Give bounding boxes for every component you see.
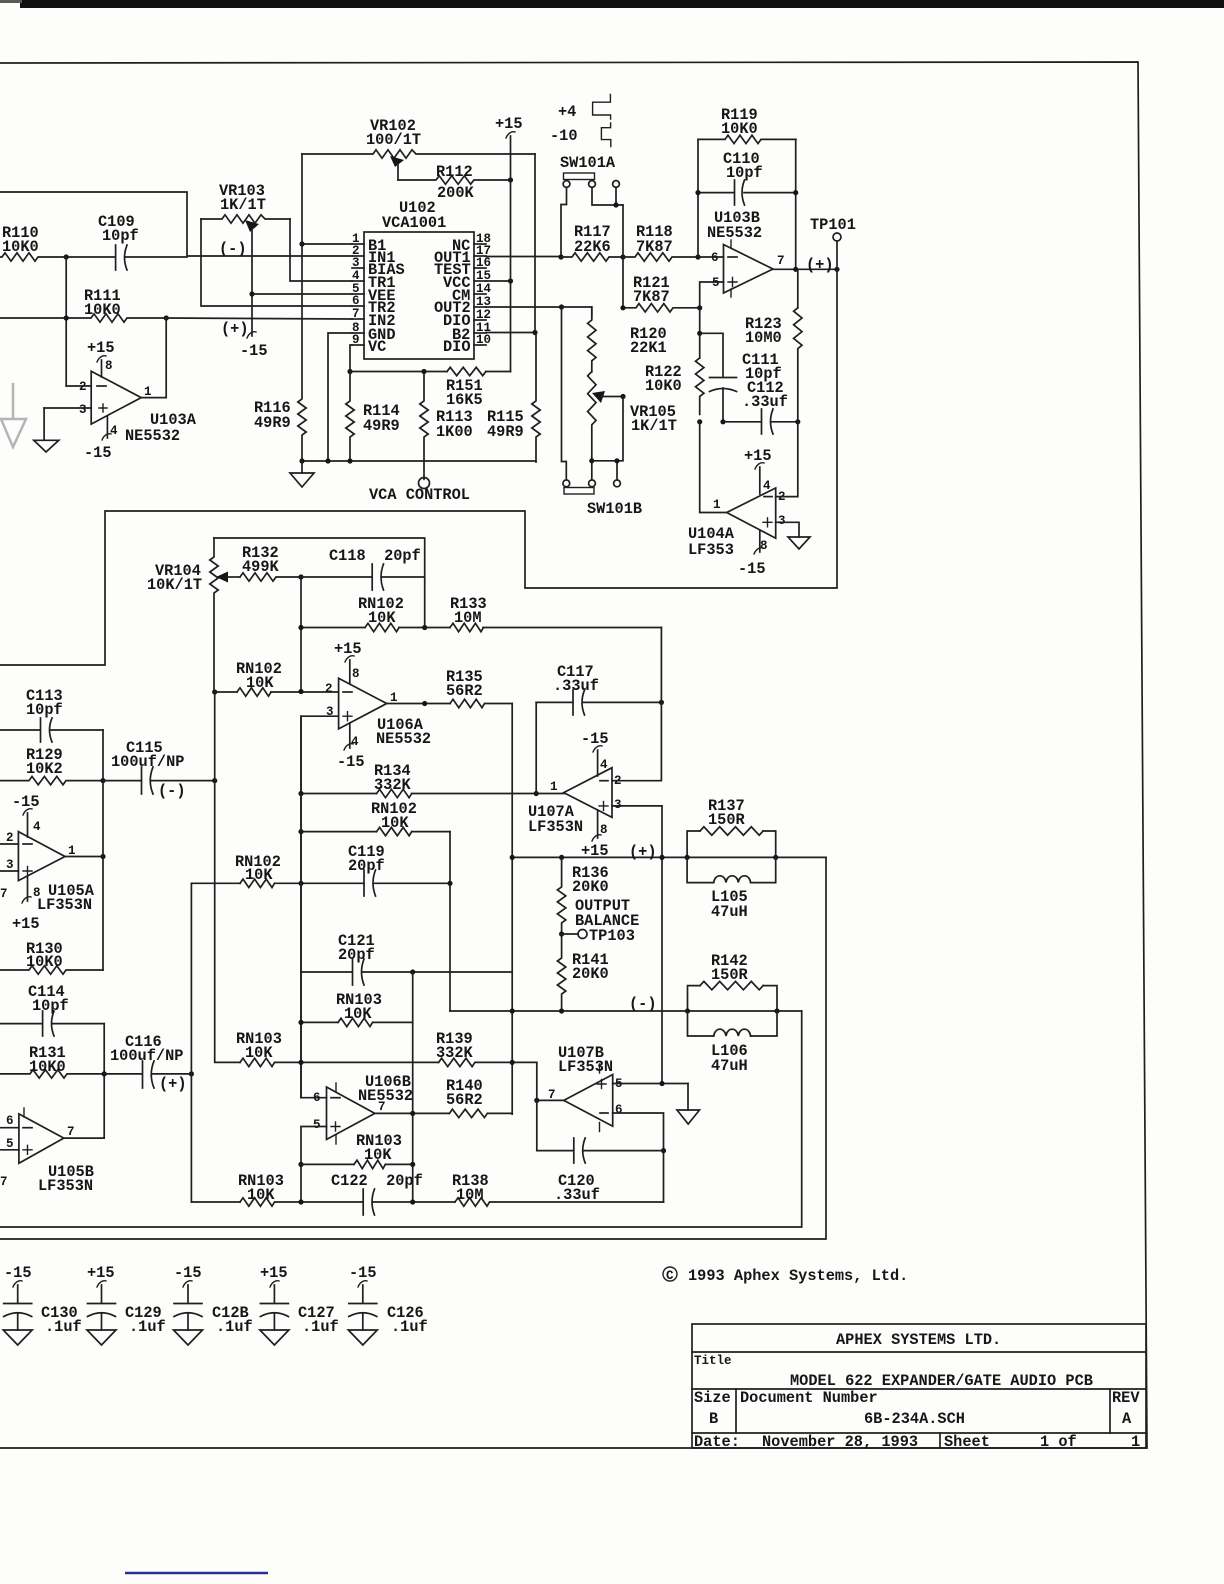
- level mark -10: [550, 123, 611, 147]
- svg-text:10pf: 10pf: [26, 701, 63, 719]
- wire VR104 top loop: [214, 538, 425, 628]
- wire C113 down to R129 row: [102, 730, 104, 781]
- wire GND pin8 down: [328, 333, 352, 461]
- potentiometer VR103: [201, 182, 290, 294]
- svg-text:7: 7: [0, 887, 8, 901]
- resistor R131: [0, 1044, 103, 1078]
- wire detector output routing: [0, 269, 837, 665]
- op-amp U104A: [688, 479, 786, 559]
- svg-text:(+): (+): [806, 256, 834, 274]
- wire VR103 left leg to TR2 row: [201, 219, 352, 306]
- resistor R151: [446, 367, 486, 409]
- svg-text:+15: +15: [744, 447, 772, 465]
- svg-text:10K: 10K: [246, 674, 274, 692]
- potentiometer VR104: [147, 538, 228, 692]
- inductor L105: [687, 857, 776, 921]
- svg-text:4: 4: [763, 479, 771, 493]
- power -15 U104A: [738, 530, 766, 578]
- svg-text:(-): (-): [629, 995, 657, 1013]
- wire B2 row to R115: [486, 332, 536, 334]
- svg-text:NE5532: NE5532: [125, 427, 180, 445]
- svg-text:+15: +15: [260, 1264, 288, 1282]
- wire OUT2 row: [486, 306, 562, 308]
- svg-text:.1uf: .1uf: [391, 1318, 428, 1336]
- svg-text:20K0: 20K0: [572, 878, 609, 896]
- svg-text:9: 9: [352, 333, 360, 347]
- wire U105B output: [64, 1074, 104, 1138]
- resistor R130: [0, 940, 103, 974]
- resistor R137: [687, 797, 776, 857]
- svg-text:VCA1001: VCA1001: [382, 214, 446, 232]
- svg-text:3: 3: [6, 858, 14, 872]
- svg-text:56R2: 56R2: [446, 1091, 483, 1109]
- capacitor C110: [698, 150, 796, 205]
- svg-text:1K/1T: 1K/1T: [220, 196, 266, 214]
- wire U106B output: [375, 1112, 450, 1114]
- svg-text:APHEX SYSTEMS LTD.: APHEX SYSTEMS LTD.: [836, 1331, 1001, 1349]
- IC U102 VCA1001 box: [364, 199, 474, 359]
- svg-text:NE5532: NE5532: [376, 730, 431, 748]
- wire U106A plus input: [301, 716, 339, 1097]
- node dots R111 row: [64, 315, 69, 320]
- svg-text:TP103: TP103: [589, 927, 635, 945]
- resistor R140: [446, 1077, 512, 1118]
- wire OUT1 row: [486, 256, 561, 258]
- svg-text:3: 3: [778, 514, 786, 528]
- svg-text:+15: +15: [87, 1264, 115, 1282]
- op-amp U106B: [313, 1073, 413, 1144]
- capacitor C126: [348, 1264, 427, 1345]
- wire VR103 right leg to TR1 row: [290, 219, 352, 281]
- resistor R139: [436, 1030, 537, 1067]
- copyright note: [663, 1267, 908, 1285]
- svg-text:4: 4: [110, 424, 118, 438]
- wire minus feedback right leg: [612, 628, 661, 781]
- svg-text:SW101A: SW101A: [560, 154, 616, 172]
- resistor R111 on IN2 row: [0, 287, 166, 322]
- wire C114 down to R131 row: [103, 1024, 105, 1074]
- svg-text:NE5532: NE5532: [707, 224, 762, 242]
- svg-text:.33uf: .33uf: [742, 393, 788, 411]
- svg-text:-15: -15: [581, 730, 609, 748]
- terminal VCA CONTROL: [369, 478, 470, 505]
- svg-text:150R: 150R: [708, 811, 746, 829]
- U102 left pin stubs: [352, 244, 364, 345]
- op-amp U105B: [0, 1108, 94, 1195]
- svg-text:1: 1: [1131, 1433, 1140, 1451]
- svg-text:4: 4: [33, 820, 41, 834]
- power -15 U106A: [337, 723, 365, 771]
- RN103 resnet fb: [301, 1132, 413, 1169]
- svg-text:20K0: 20K0: [572, 965, 609, 983]
- capacitor C109: [66, 213, 187, 270]
- wire RN102c right leg: [449, 832, 451, 1011]
- wire IN2 row to U102 pin7: [166, 318, 352, 319]
- resistor R120: [588, 307, 667, 372]
- svg-text:47uH: 47uH: [711, 903, 748, 921]
- svg-text:REV: REV: [1112, 1389, 1140, 1407]
- svg-text:(+): (+): [629, 843, 657, 861]
- svg-text:49R9: 49R9: [254, 414, 291, 432]
- svg-text:LF353N: LF353N: [37, 896, 92, 914]
- inductor L106: [688, 1011, 778, 1075]
- wire U104A minus to R123 node: [776, 422, 798, 497]
- svg-text:November 28, 1993: November 28, 1993: [762, 1433, 918, 1451]
- svg-text:2: 2: [79, 380, 87, 394]
- svg-text:5: 5: [313, 1118, 321, 1132]
- svg-text:3: 3: [614, 798, 622, 812]
- svg-text:10pf: 10pf: [102, 227, 139, 245]
- svg-text:(+): (+): [221, 320, 249, 338]
- level mark +4: [558, 94, 611, 121]
- scanner black bar top: [0, 0, 1224, 8]
- svg-text:Date:: Date:: [694, 1433, 740, 1451]
- svg-text:-15: -15: [349, 1264, 377, 1282]
- resistor R112: [398, 163, 510, 202]
- svg-text:10M: 10M: [456, 1186, 484, 1204]
- resistor R135: [446, 668, 512, 708]
- svg-text:6: 6: [313, 1091, 321, 1105]
- resistor R132: [227, 544, 301, 581]
- wire OUT2 to R120: [562, 307, 592, 316]
- svg-text:56R2: 56R2: [446, 682, 483, 700]
- capacitor C120: [537, 1100, 664, 1204]
- switch SW101A: [560, 154, 623, 257]
- svg-text:22K6: 22K6: [574, 238, 611, 256]
- svg-text:10K0: 10K0: [645, 377, 682, 395]
- svg-text:3: 3: [352, 256, 360, 270]
- svg-text:6: 6: [711, 251, 719, 265]
- svg-text:5: 5: [6, 1137, 14, 1151]
- feedback right leg: [795, 139, 797, 269]
- wire (+) output to right edge loop: [0, 857, 826, 1239]
- svg-text:47uH: 47uH: [711, 1057, 748, 1075]
- svg-text:B: B: [709, 1410, 718, 1428]
- svg-text:Document Number: Document Number: [740, 1389, 878, 1407]
- title block size/doc/rev: [694, 1389, 1140, 1428]
- svg-text:49R9: 49R9: [487, 423, 524, 441]
- resistor R115: [487, 333, 540, 463]
- op-amp U106A: [325, 667, 431, 749]
- capacitor C121: [301, 932, 512, 985]
- svg-text:6: 6: [352, 294, 360, 308]
- svg-text:20pf: 20pf: [338, 946, 375, 964]
- svg-text:2: 2: [6, 831, 14, 845]
- svg-text:LF353: LF353: [688, 541, 734, 559]
- wire B1 row: [302, 243, 352, 245]
- svg-text:1 of: 1 of: [1040, 1433, 1077, 1451]
- svg-text:4: 4: [352, 269, 360, 283]
- svg-text:.1uf: .1uf: [129, 1318, 166, 1336]
- svg-text:A: A: [1122, 1410, 1132, 1428]
- svg-text:499K: 499K: [242, 558, 280, 576]
- svg-text:1K/1T: 1K/1T: [631, 417, 677, 435]
- svg-text:49R9: 49R9: [363, 417, 400, 435]
- wire branch down to R111 row: [65, 257, 67, 386]
- svg-text:16: 16: [476, 256, 491, 270]
- wire (+) audio node vertical: [190, 883, 192, 1202]
- resistor R113: [420, 372, 473, 480]
- svg-text:+15: +15: [334, 640, 362, 658]
- svg-text:7: 7: [0, 1175, 8, 1189]
- svg-text:10K: 10K: [247, 1186, 275, 1204]
- capacitor C114: [0, 983, 104, 1036]
- svg-text:1: 1: [713, 498, 721, 512]
- svg-text:+15: +15: [495, 115, 523, 133]
- svg-text:7K87: 7K87: [633, 288, 670, 306]
- svg-text:10K0: 10K0: [84, 301, 121, 319]
- RN102 resnet d: [191, 853, 301, 888]
- svg-text:-15: -15: [738, 560, 766, 578]
- svg-text:4: 4: [600, 758, 608, 772]
- capacitor C111: [700, 333, 782, 422]
- svg-text:10pf: 10pf: [726, 164, 763, 182]
- svg-text:+15: +15: [87, 339, 115, 357]
- capacitor C115: [103, 739, 215, 800]
- svg-text:2: 2: [325, 682, 333, 696]
- U102 left pin names: [368, 237, 405, 356]
- capacitor C122: [331, 1172, 455, 1215]
- wire VR104 net down to RN103 row: [215, 692, 240, 1062]
- power +15 U107A: [581, 810, 609, 860]
- svg-text:-15: -15: [4, 1264, 32, 1282]
- resistor R133: [425, 595, 662, 632]
- svg-text:7: 7: [777, 254, 785, 268]
- wire U107B minus loop: [613, 1113, 664, 1202]
- resistor R142: [688, 952, 778, 1011]
- svg-text:200K: 200K: [437, 184, 475, 202]
- power +15 U103A: [87, 339, 115, 377]
- wire U107B output node: [537, 1099, 564, 1101]
- svg-text:332K: 332K: [374, 776, 412, 794]
- power +15 U104A: [744, 447, 772, 494]
- wire plus net vertical upper: [300, 716, 302, 1097]
- svg-text:22K1: 22K1: [630, 339, 667, 357]
- ground U103A pin3: [34, 408, 59, 452]
- wire R135 node vertical: [511, 704, 513, 1115]
- (-) audio row: [450, 1010, 802, 1012]
- RN103 resnet b: [236, 1030, 439, 1067]
- svg-text:MODEL 622 EXPANDER/GATE AUDIO: MODEL 622 EXPANDER/GATE AUDIO PCB: [790, 1372, 1093, 1390]
- svg-text:.1uf: .1uf: [45, 1318, 82, 1336]
- wire U103B output: [773, 268, 837, 270]
- svg-text:LF353N: LF353N: [558, 1058, 613, 1076]
- resistor R116: [254, 244, 306, 461]
- gray ground artifact left edge: [1, 383, 26, 447]
- svg-text:R112: R112: [436, 163, 473, 181]
- svg-text:10M0: 10M0: [745, 329, 782, 347]
- power -15 U103A: [84, 416, 112, 462]
- svg-text:(-): (-): [158, 782, 186, 800]
- title block date row: [694, 1433, 1140, 1451]
- svg-text:-15: -15: [337, 753, 365, 771]
- wire VC node row: [350, 371, 511, 373]
- wire OUT2 branch down to SW101B: [562, 307, 567, 480]
- wire VEE row: [252, 293, 352, 295]
- wire (-) output to right edge loop: [0, 1011, 802, 1227]
- U102 right pin numbers: [476, 232, 492, 347]
- svg-text:6B-234A.SCH: 6B-234A.SCH: [864, 1410, 965, 1428]
- svg-text:C122 20pf: C122 20pf: [331, 1172, 423, 1190]
- wire R118 to U103B-: [698, 256, 724, 258]
- svg-text:C118 20pf: C118 20pf: [329, 547, 421, 565]
- wire U107B plus row to ground: [613, 1083, 688, 1085]
- wire U103B+ input: [700, 282, 724, 308]
- svg-text:(+): (+): [159, 1075, 187, 1093]
- svg-text:C: C: [666, 1269, 674, 1283]
- wire SW101B top row: [592, 397, 623, 480]
- potentiometer VR105: [588, 372, 677, 461]
- svg-text:8: 8: [105, 359, 113, 373]
- resistor R122: [645, 308, 704, 415]
- svg-text:6: 6: [615, 1103, 623, 1117]
- svg-text:10M: 10M: [454, 609, 482, 627]
- op-amp U107B: [548, 1044, 623, 1132]
- ground symbol: [290, 461, 314, 487]
- wire VR102 right leg down to B2 row: [534, 154, 536, 333]
- resistor R118: [623, 223, 698, 261]
- svg-text:Size: Size: [694, 1389, 731, 1407]
- resistor R138: [452, 1172, 664, 1206]
- svg-text:TP101: TP101: [810, 216, 856, 234]
- svg-text:2: 2: [614, 774, 622, 788]
- svg-text:+15: +15: [12, 915, 40, 933]
- resistor R141: [557, 934, 608, 1009]
- power -15 VR103 wiper: [240, 294, 268, 360]
- svg-text:3: 3: [79, 403, 87, 417]
- potentiometer VR102: [302, 117, 535, 180]
- op-amp U107A: [528, 758, 622, 837]
- svg-text:10K: 10K: [364, 1146, 392, 1164]
- wire output node vertical: [102, 781, 104, 970]
- test point TP103: [559, 927, 635, 945]
- svg-text:4: 4: [351, 735, 359, 749]
- wire minus net vertical: [300, 577, 302, 691]
- power -15 U105A: [12, 793, 40, 837]
- switch SW101B: [563, 480, 642, 518]
- feedback left leg: [697, 139, 699, 257]
- op-amp U103B: [707, 209, 785, 297]
- svg-text:-15: -15: [12, 793, 40, 811]
- svg-text:10K0: 10K0: [721, 120, 758, 138]
- svg-text:(-): (-): [219, 240, 247, 258]
- svg-text:150R: 150R: [711, 966, 749, 984]
- wire U107A plus to (+) row: [612, 806, 662, 1084]
- svg-text:12: 12: [476, 308, 491, 322]
- svg-text:.33uf: .33uf: [553, 677, 599, 695]
- svg-text:1K00: 1K00: [436, 423, 473, 441]
- svg-text:10K: 10K: [245, 866, 273, 884]
- capacitor C127: [260, 1264, 339, 1345]
- svg-text:LF353N: LF353N: [528, 818, 583, 836]
- capacitor C129: [87, 1264, 166, 1345]
- svg-text:.1uf: .1uf: [302, 1318, 339, 1336]
- power +15 rail: [495, 115, 523, 372]
- title block title: [694, 1354, 1093, 1390]
- svg-text:VCA CONTROL: VCA CONTROL: [369, 486, 470, 504]
- svg-text:-15: -15: [84, 444, 112, 462]
- svg-text:1993 Aphex Systems, Ltd.: 1993 Aphex Systems, Ltd.: [688, 1267, 908, 1285]
- wire U106B plus input: [301, 1127, 327, 1203]
- node dot R110/C109/R111 branch: [64, 254, 69, 259]
- resistor R117: [561, 223, 623, 261]
- svg-text:10K2: 10K2: [26, 760, 63, 778]
- svg-text:NE5532: NE5532: [358, 1087, 413, 1105]
- wire U103A output feedback: [141, 318, 166, 398]
- svg-text:10K0: 10K0: [26, 953, 63, 971]
- wire IN1 top feed: [0, 192, 352, 256]
- svg-text:6: 6: [6, 1114, 14, 1128]
- wire SW101A right leg: [622, 205, 624, 308]
- svg-text:7K87: 7K87: [636, 238, 673, 256]
- label OUTPUT BALANCE: [575, 897, 639, 930]
- ground U107B: [677, 1084, 700, 1125]
- svg-text:7: 7: [67, 1125, 75, 1139]
- svg-text:14: 14: [476, 282, 492, 296]
- wire U105A output: [65, 856, 103, 858]
- RN102 resnet a: [301, 595, 425, 632]
- svg-text:+4: +4: [558, 103, 576, 121]
- svg-text:7: 7: [352, 307, 360, 321]
- svg-text:10K: 10K: [368, 609, 396, 627]
- RN103 resnet a: [301, 991, 413, 1027]
- RN102 resnet b: [215, 660, 339, 696]
- (+) audio row: [512, 856, 826, 858]
- svg-text:.33uf: .33uf: [554, 1186, 600, 1204]
- capacitor C128: [174, 1264, 253, 1345]
- svg-text:-10: -10: [550, 127, 578, 145]
- RN102 resnet c: [301, 800, 450, 836]
- wire VC pin9 down: [350, 345, 352, 372]
- ground row under U102: [302, 460, 536, 462]
- svg-text:Sheet: Sheet: [944, 1433, 990, 1451]
- power +15 U106A: [334, 640, 362, 684]
- svg-text:10K/1T: 10K/1T: [147, 576, 202, 594]
- U102 right pin stubs: [474, 244, 486, 345]
- svg-text:16K5: 16K5: [446, 391, 483, 409]
- svg-text:Title: Title: [694, 1354, 732, 1368]
- wire C121 node vertical: [412, 972, 414, 1202]
- op-amp U105A: [0, 820, 95, 914]
- U102 right pin names: [434, 237, 471, 356]
- svg-text:SW101B: SW101B: [587, 500, 642, 518]
- capacitor C118: [301, 547, 425, 590]
- svg-text:-15: -15: [240, 342, 268, 360]
- svg-text:100uf/NP: 100uf/NP: [111, 753, 184, 771]
- RN103 resnet c: [191, 1172, 363, 1206]
- svg-text:10: 10: [476, 333, 491, 347]
- resistor R134: [301, 762, 564, 798]
- resistor R119: [698, 106, 796, 144]
- resistor R129: [0, 746, 103, 785]
- wire R139 down to U107B out: [536, 1062, 538, 1100]
- svg-text:.1uf: .1uf: [216, 1318, 253, 1336]
- svg-text:10K0: 10K0: [2, 238, 39, 256]
- capacitor C130: [3, 1264, 82, 1345]
- capacitor C112: [723, 379, 798, 434]
- wire VR102 left leg down to B1: [301, 154, 303, 244]
- svg-text:10K0: 10K0: [29, 1058, 66, 1076]
- svg-text:LF353N: LF353N: [38, 1177, 93, 1195]
- svg-text:DIO: DIO: [443, 338, 471, 356]
- svg-text:VC: VC: [368, 338, 386, 356]
- svg-text:100uf/NP: 100uf/NP: [110, 1047, 183, 1065]
- capacitor C117: [536, 663, 661, 715]
- U102 left pin numbers: [352, 232, 360, 347]
- blue pen mark bottom left: [125, 1572, 268, 1575]
- svg-text:8: 8: [760, 539, 768, 553]
- wire C117 left leg: [535, 702, 537, 793]
